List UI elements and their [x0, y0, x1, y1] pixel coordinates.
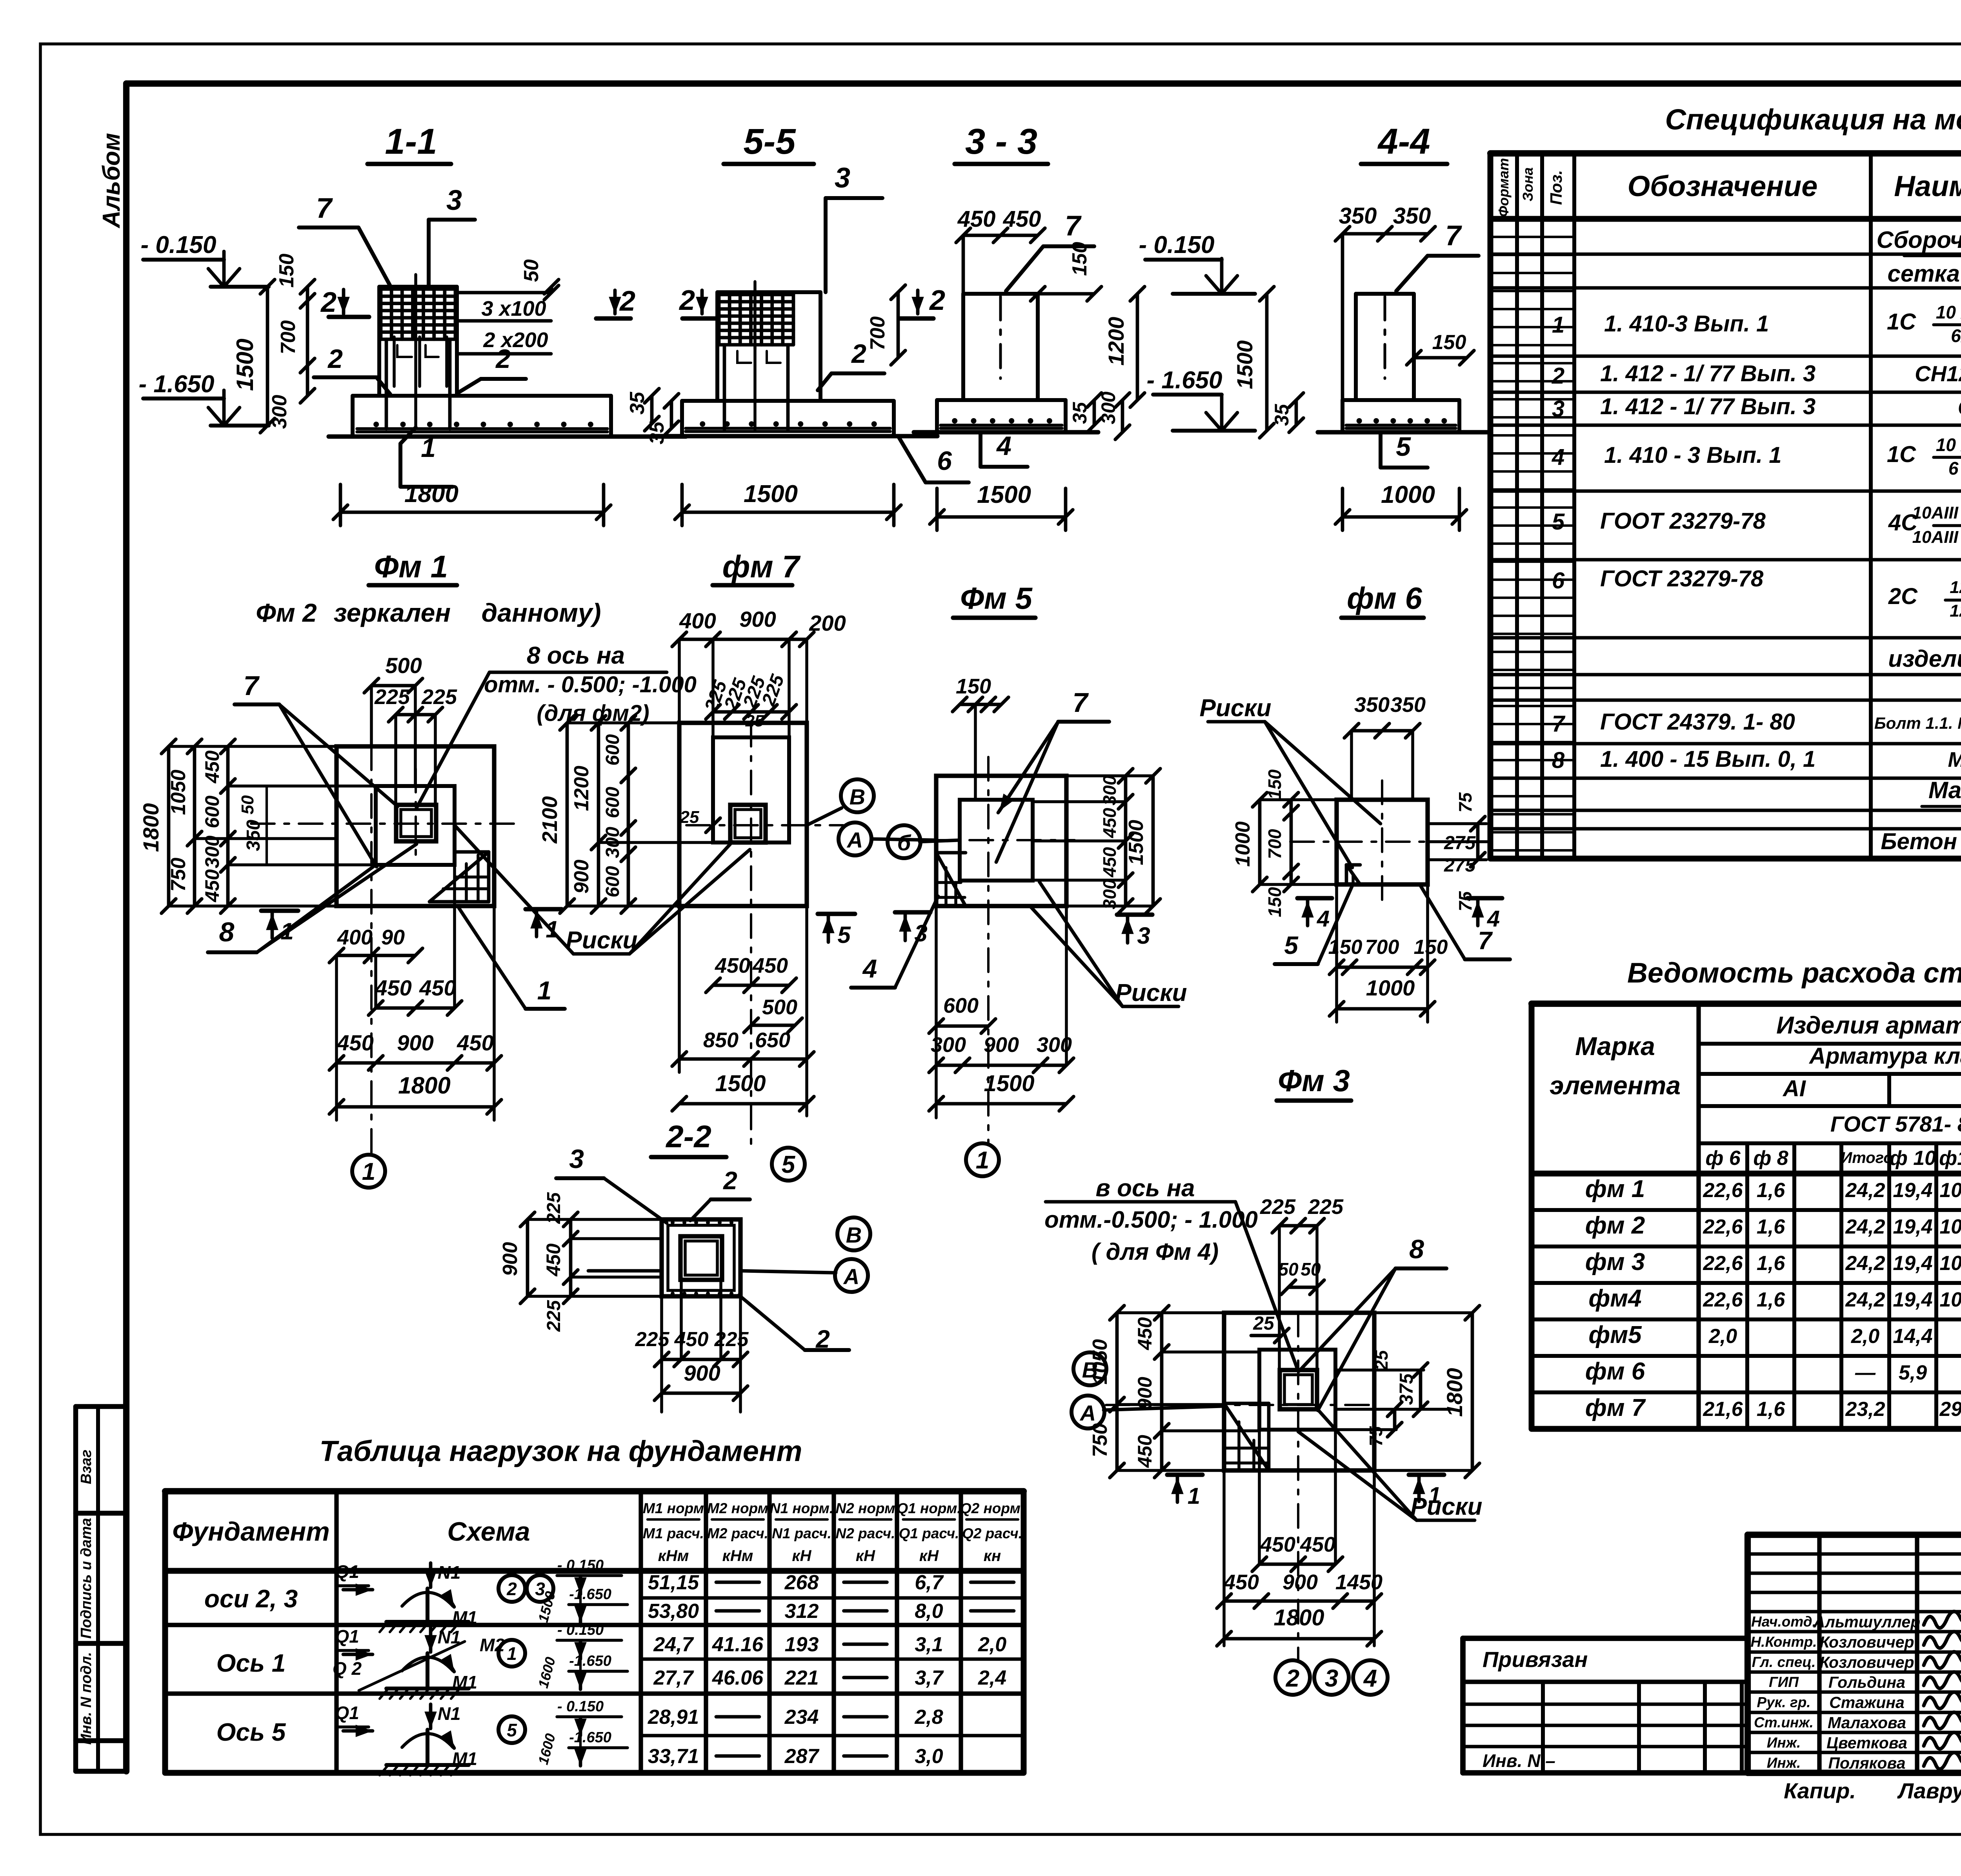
- svg-text:А: А: [846, 828, 863, 852]
- svg-text:ГОСТ 24379. 1- 80: ГОСТ 24379. 1- 80: [1600, 709, 1795, 735]
- svg-text:2,0: 2,0: [978, 1633, 1006, 1656]
- title block outline: [1748, 1535, 1961, 1773]
- ФМ3 cut mark 1 right: [1409, 1475, 1444, 1508]
- ФМ7 axis dashed lines: [686, 723, 843, 1147]
- ФМ3 pedestal: [1259, 1350, 1335, 1430]
- ФМ5 right dims 300 450 450 300: [1033, 769, 1153, 913]
- ФМ7 bottom dims 450 450: [706, 954, 797, 992]
- svg-text:225: 225: [421, 685, 457, 709]
- svg-text:8: 8: [1552, 748, 1565, 773]
- ФМ6 bottom dims 150 700 150: [1328, 884, 1448, 1022]
- ФМ6 right dims 75 275 275 75: [1428, 792, 1490, 912]
- svg-text:450: 450: [1223, 1570, 1259, 1594]
- svg-text:2: 2: [619, 286, 635, 317]
- ФМ3 plan outline: [1224, 1313, 1374, 1470]
- svg-text:350: 350: [1390, 693, 1426, 717]
- spec row embedded item: [1888, 646, 1961, 672]
- svg-text:3,7: 3,7: [915, 1667, 944, 1689]
- ФМ1 bottom dims 450 900 450: [329, 906, 502, 1070]
- ФМ6 plan outline: [1337, 800, 1428, 884]
- section 1-1 leader 1: [400, 428, 453, 487]
- svg-text:450: 450: [1099, 847, 1120, 877]
- svg-text:Фм 1: Фм 1: [374, 549, 448, 584]
- svg-text:- 0.150: - 0.150: [140, 231, 216, 258]
- svg-text:7: 7: [1065, 210, 1082, 242]
- spec row assembly units: [1877, 227, 1961, 287]
- svg-text:ГИП: ГИП: [1769, 1674, 1799, 1690]
- svg-text:данному): данному): [481, 598, 601, 627]
- svg-text:1200: 1200: [570, 766, 593, 811]
- svg-text:225: 225: [374, 685, 410, 709]
- svg-text:150: 150: [275, 254, 298, 288]
- svg-text:90: 90: [381, 926, 405, 949]
- spec row 4: [1552, 435, 1961, 479]
- svg-text:N1 норм.: N1 норм.: [770, 1500, 833, 1516]
- svg-text:изделие закладное: изделие закладное: [1888, 646, 1961, 672]
- svg-text:Ось 1: Ось 1: [216, 1649, 286, 1677]
- svg-text:150: 150: [1068, 242, 1091, 276]
- svg-text:8 ось на: 8 ось на: [527, 642, 625, 669]
- svg-text:в ось на: в ось на: [1096, 1175, 1195, 1202]
- svg-text:Фундамент: Фундамент: [172, 1517, 330, 1547]
- svg-text:2,0: 2,0: [1708, 1325, 1737, 1348]
- svg-text:N1: N1: [438, 1703, 461, 1724]
- section 5-5 leader 2 bottom: [818, 339, 884, 390]
- svg-text:225: 225: [758, 671, 788, 709]
- section 4-4 top dims 350 350: [1335, 203, 1435, 400]
- svg-text:268: 268: [784, 1571, 819, 1594]
- svg-text:1500: 1500: [1125, 820, 1148, 865]
- section 5-5 cut mark 2 right: [900, 285, 945, 318]
- svg-text:4: 4: [996, 431, 1011, 461]
- ФМ6 riski label: [1199, 695, 1381, 868]
- svg-text:—: —: [1855, 1361, 1876, 1384]
- ФМ1 pedestal: [376, 786, 455, 865]
- section 3-3 leader 4: [980, 431, 1028, 467]
- svg-text:25: 25: [745, 711, 764, 730]
- svg-text:50: 50: [1278, 1259, 1299, 1279]
- ФМ5 top dim 150: [953, 675, 1009, 800]
- svg-text:Риски: Риски: [566, 927, 637, 954]
- ФМ6 hatch mark: [1346, 865, 1360, 884]
- svg-text:500: 500: [762, 995, 797, 1019]
- svg-text:24,2: 24,2: [1845, 1288, 1885, 1311]
- svg-text:Q 2: Q 2: [333, 1658, 362, 1679]
- svg-text:Стажина: Стажина: [1829, 1694, 1905, 1712]
- svg-text:2: 2: [1552, 363, 1564, 389]
- svg-text:кНм: кНм: [722, 1547, 753, 1565]
- ФМ5 riski label right: [1031, 882, 1187, 1006]
- svg-text:5,9: 5,9: [1899, 1361, 1927, 1384]
- ФМ1 cut mark 1 left: [261, 911, 298, 944]
- svg-text:6: 6: [1552, 568, 1565, 593]
- ФМ1 top dim 500: [364, 653, 423, 786]
- svg-text:1. 412 - 1/ 77 Вып. 3: 1. 412 - 1/ 77 Вып. 3: [1600, 361, 1815, 386]
- svg-text:2: 2: [320, 287, 337, 318]
- section 4-4 dim 1000 bottom: [1335, 481, 1467, 530]
- section 5-5 dim 1500: [675, 480, 901, 526]
- svg-text:1. 412 - 1/ 77 Вып. 3: 1. 412 - 1/ 77 Вып. 3: [1600, 394, 1815, 419]
- plan title ФМ 7: [713, 549, 801, 585]
- svg-text:Спецификация на монолитны: Спецификация на монолитные фундаменты: [1665, 103, 1961, 136]
- section 4-4 dim 35 left: [1271, 393, 1303, 433]
- svg-text:1,6: 1,6: [1757, 1215, 1785, 1238]
- svg-text:кНм: кНм: [658, 1547, 689, 1565]
- svg-text:2: 2: [723, 1166, 737, 1195]
- svg-text:12АIII: 12АIII: [1950, 601, 1961, 620]
- svg-text:150: 150: [956, 675, 991, 698]
- svg-text:Сборочные единицы: Сборочные единицы: [1877, 227, 1961, 253]
- svg-text:1500: 1500: [232, 338, 258, 391]
- svg-text:Зона: Зона: [1520, 167, 1536, 202]
- svg-text:N2 норм: N2 норм: [835, 1500, 895, 1516]
- svg-text:фм 1: фм 1: [1585, 1175, 1645, 1203]
- spec row 1: [1552, 302, 1961, 346]
- svg-text:М2 норм: М2 норм: [707, 1500, 768, 1516]
- svg-text:225: 225: [1260, 1195, 1296, 1219]
- svg-text:Подпись и дата: Подпись и дата: [78, 1518, 95, 1639]
- svg-text:3,1: 3,1: [915, 1633, 943, 1656]
- svg-text:Обозначение: Обозначение: [1628, 170, 1818, 202]
- plan title ФМ 1: [369, 549, 457, 585]
- svg-text:ф 6: ф 6: [1705, 1147, 1741, 1170]
- svg-text:600: 600: [201, 795, 223, 828]
- svg-text:450: 450: [957, 206, 996, 232]
- svg-text:М1: М1: [452, 1607, 477, 1628]
- svg-text:фм 6: фм 6: [1347, 581, 1422, 615]
- svg-text:фм 3: фм 3: [1585, 1248, 1645, 1276]
- svg-text:500: 500: [385, 653, 422, 678]
- ФМ3 axis circles 2 3 4: [1275, 1660, 1388, 1695]
- spec table grid: [1490, 153, 1961, 951]
- svg-text:33,71: 33,71: [648, 1745, 699, 1768]
- svg-text:фм4: фм4: [1588, 1285, 1641, 1312]
- svg-text:19,4: 19,4: [1893, 1288, 1932, 1311]
- svg-text:150: 150: [1264, 887, 1285, 917]
- vedomost table heading: [1627, 957, 1961, 989]
- ФМ3 bottom dims 450 900 1450: [1217, 1470, 1383, 1646]
- svg-text:ГОСТ 23279-78: ГОСТ 23279-78: [1600, 566, 1764, 591]
- spec row 2: [1552, 361, 1961, 389]
- svg-text:Инв. N –: Инв. N –: [1483, 1750, 1555, 1771]
- svg-text:1000: 1000: [1381, 481, 1435, 508]
- svg-text:Инв. N подл.: Инв. N подл.: [78, 1652, 95, 1745]
- svg-text:450: 450: [1134, 1435, 1156, 1468]
- svg-text:19,4: 19,4: [1893, 1252, 1932, 1275]
- ФМ6 left dim 1000: [1232, 793, 1337, 892]
- svg-text:М1: М1: [452, 1672, 477, 1692]
- svg-text:1: 1: [976, 1147, 989, 1174]
- ФМ3 anchor plate: [1280, 1370, 1317, 1409]
- section 1-1 leader 3: [429, 185, 475, 287]
- svg-text:7: 7: [244, 670, 260, 701]
- vedomost data rows: [1585, 1175, 1961, 1421]
- svg-text:5: 5: [1284, 931, 1299, 959]
- section 2-2 leader 3: [556, 1144, 667, 1223]
- loads table headers: [172, 1500, 1024, 1565]
- svg-text:5-5: 5-5: [744, 122, 797, 162]
- svg-text:400: 400: [337, 926, 373, 949]
- svg-text:1. 400 - 15 Вып. 0, 1: 1. 400 - 15 Вып. 0, 1: [1600, 746, 1815, 772]
- svg-text:450: 450: [674, 1328, 709, 1351]
- svg-text:600: 600: [943, 994, 979, 1017]
- level mark -0.150 center: [1139, 231, 1255, 294]
- svg-text:Н.Контр.: Н.Контр.: [1750, 1634, 1817, 1650]
- svg-text:Таблица нагрузок на фунда: Таблица нагрузок на фундамент: [320, 1435, 802, 1467]
- svg-text:Альбом: Альбом: [98, 133, 125, 229]
- svg-text:М2: М2: [480, 1635, 505, 1655]
- svg-text:ГООТ 23279-78: ГООТ 23279-78: [1600, 508, 1766, 534]
- svg-text:Капир.: Капир.: [1784, 1778, 1856, 1803]
- svg-text:Взаг: Взаг: [78, 1450, 95, 1484]
- svg-text:N1: N1: [438, 1562, 461, 1583]
- axis circles В А б between plans: [807, 779, 960, 858]
- ФМ1 note 8 axis at elevation: [417, 642, 697, 808]
- svg-text:СА - 6АI: СА - 6АI: [1958, 395, 1961, 420]
- svg-text:700: 700: [866, 317, 889, 351]
- section 1-1 dim 35 right: [626, 389, 659, 431]
- ФМ1 left dims 450 600 300 450: [201, 739, 376, 913]
- svg-text:10 А III: 10 А III: [1936, 435, 1961, 455]
- ФМ7 top dims 400 900 200: [672, 607, 846, 737]
- svg-text:7: 7: [1445, 220, 1462, 251]
- svg-text:27,7: 27,7: [653, 1667, 694, 1689]
- svg-text:Гл. спец.: Гл. спец.: [1752, 1654, 1816, 1670]
- section 1-1 level mark -0.150: [140, 231, 269, 287]
- ФМ5 bottom dims 300 900 300: [929, 906, 1074, 1118]
- svg-text:10АIII - 200 (100): 10АIII - 200 (100): [1912, 528, 1961, 547]
- svg-text:150: 150: [1264, 769, 1285, 799]
- svg-text:150: 150: [1414, 936, 1448, 959]
- svg-text:ф 10: ф 10: [1890, 1147, 1936, 1170]
- svg-text:Арматура класса: Арматура класса: [1808, 1043, 1961, 1069]
- svg-text:10,4: 10,4: [1939, 1215, 1961, 1238]
- svg-text:350: 350: [1393, 203, 1431, 229]
- loads scheme axis 5: [335, 1698, 628, 1775]
- svg-text:Изделия арматурные: Изделия арматурные: [1776, 1012, 1961, 1039]
- svg-text:2: 2: [495, 344, 511, 374]
- svg-text:- 0.150: - 0.150: [557, 1698, 604, 1715]
- ФМ1 hatch triangle: [429, 852, 489, 902]
- svg-text:700: 700: [1264, 829, 1285, 859]
- svg-text:2100: 2100: [538, 796, 562, 844]
- svg-text:отм. - 0.500; -1.000: отм. - 0.500; -1.000: [484, 672, 697, 697]
- svg-text:5: 5: [782, 1151, 796, 1178]
- svg-text:1,6: 1,6: [1757, 1179, 1785, 1202]
- svg-text:М2 расч.: М2 расч.: [707, 1525, 768, 1541]
- svg-text:750: 750: [167, 858, 190, 892]
- svg-text:кН: кН: [792, 1547, 811, 1565]
- ФМ6 cut mark 4 left: [1297, 898, 1332, 932]
- svg-text:23,2: 23,2: [1845, 1398, 1885, 1421]
- svg-text:225: 225: [714, 1328, 749, 1351]
- level mark -1.650 center: [1146, 367, 1255, 431]
- svg-text:Нач.отд.: Нач.отд.: [1751, 1614, 1816, 1630]
- svg-text:N1 расч.: N1 расч.: [772, 1525, 831, 1541]
- svg-text:Фм 2: Фм 2: [256, 598, 317, 627]
- ФМ7 axis circle 5: [772, 1148, 805, 1181]
- spec table headers: [1495, 158, 1961, 217]
- svg-text:Наименование: Наименование: [1894, 170, 1961, 202]
- svg-text:450: 450: [457, 1030, 493, 1055]
- ФМ1 top dims 225 225: [374, 685, 457, 805]
- svg-text:- 0.150: - 0.150: [557, 1622, 604, 1638]
- svg-text:Фм 5: Фм 5: [960, 581, 1033, 615]
- section 2-2 bottom dims 225 450 225: [635, 1280, 749, 1412]
- section 2-2 leader 2 top: [690, 1166, 750, 1221]
- ФМ5 pedestal: [960, 800, 1033, 881]
- section 2-2 bottom dim 900: [655, 1361, 748, 1400]
- svg-text:3 х100: 3 х100: [481, 297, 546, 320]
- svg-text:кн: кн: [984, 1547, 1001, 1565]
- ФМ3 left dims 1050 750: [1089, 1306, 1224, 1478]
- svg-text:1,6: 1,6: [1757, 1252, 1785, 1275]
- svg-text:зеркален: зеркален: [334, 598, 451, 627]
- svg-text:600: 600: [602, 866, 623, 897]
- svg-text:193: 193: [785, 1633, 819, 1656]
- svg-text:3 - 3: 3 - 3: [965, 122, 1037, 162]
- section 4-4 title: [1361, 122, 1447, 164]
- svg-text:450: 450: [1099, 808, 1120, 838]
- svg-text:25: 25: [1371, 1350, 1392, 1371]
- svg-text:600: 600: [602, 734, 623, 766]
- svg-text:элемента: элемента: [1550, 1071, 1681, 1100]
- ФМ5 cut mark 3 right: [1117, 915, 1152, 949]
- section 5-5 leader 3: [826, 162, 882, 292]
- section 1-1 dims 150 700 300: [268, 254, 315, 429]
- svg-text:24,2: 24,2: [1845, 1179, 1885, 1202]
- svg-text:отм.-0.500; - 1.000: отм.-0.500; - 1.000: [1044, 1206, 1258, 1233]
- svg-text:-1.650: -1.650: [569, 1729, 611, 1746]
- svg-text:4-4: 4-4: [1377, 122, 1430, 162]
- svg-text:1-1: 1-1: [385, 122, 437, 162]
- svg-text:Малахова: Малахова: [1828, 1714, 1906, 1732]
- privyazan table: [1463, 1638, 1748, 1773]
- svg-text:900: 900: [1134, 1377, 1156, 1410]
- ФМ1 small dims 50 350: [238, 786, 267, 865]
- svg-text:650: 650: [755, 1028, 790, 1052]
- section 5-5 column rebars: [724, 345, 788, 429]
- svg-text:450: 450: [375, 975, 411, 1000]
- svg-text:1: 1: [1188, 1483, 1200, 1509]
- ФМ1 bottom dim 1800: [329, 1063, 502, 1120]
- svg-text:Инж.: Инж.: [1767, 1755, 1801, 1771]
- svg-text:4: 4: [1317, 906, 1330, 932]
- svg-text:3: 3: [1325, 1665, 1338, 1692]
- loads table grid: [165, 1491, 1024, 1773]
- svg-text:50: 50: [238, 795, 257, 814]
- ФМ7 bottom dim 1500: [672, 1071, 814, 1111]
- note ФМ 2 mirrored: [256, 598, 601, 627]
- svg-text:фм 7: фм 7: [1585, 1394, 1646, 1421]
- svg-text:3: 3: [835, 162, 850, 194]
- svg-text:450: 450: [419, 975, 456, 1000]
- svg-text:АI: АI: [1782, 1076, 1806, 1101]
- svg-text:53,80: 53,80: [648, 1600, 699, 1623]
- svg-text:300: 300: [268, 395, 291, 429]
- loads table values: [648, 1571, 1014, 1768]
- svg-text:1500: 1500: [977, 481, 1031, 508]
- section 1-1 spacing labels 3x100 2x200: [457, 293, 551, 354]
- svg-text:фм 7: фм 7: [722, 549, 801, 584]
- section 2-2 axis circles В А: [588, 1217, 870, 1292]
- ФМ3 bottom dim 1800: [1217, 1605, 1382, 1646]
- svg-text:14,4: 14,4: [1893, 1325, 1932, 1348]
- loads table heading: [320, 1435, 802, 1467]
- ФМ7 anchor plate: [730, 805, 766, 842]
- svg-text:1,6: 1,6: [1757, 1398, 1785, 1421]
- section 3-3 dim 1200: [1104, 287, 1144, 408]
- svg-text:10,4: 10,4: [1939, 1179, 1961, 1202]
- svg-text:1600: 1600: [535, 1732, 558, 1766]
- svg-text:- 1.650: - 1.650: [138, 371, 214, 398]
- section 1-1 dim 50: [520, 259, 558, 300]
- section 3-3 dim 150: [1031, 242, 1102, 301]
- svg-text:5: 5: [507, 1720, 517, 1740]
- svg-text:N2 расч.: N2 расч.: [836, 1525, 895, 1541]
- section 1-1 dim 1500 vertical: [232, 280, 275, 433]
- ФМ3 axis circles В А: [1071, 1352, 1224, 1428]
- svg-text:4: 4: [862, 954, 877, 983]
- svg-text:Риски: Риски: [1410, 1493, 1482, 1520]
- svg-text:5: 5: [837, 922, 851, 948]
- ФМ6 top dims 350 350: [1344, 693, 1426, 800]
- svg-text:1С: 1С: [1887, 442, 1916, 467]
- ФМ3 dim 25: [1251, 1313, 1289, 1343]
- svg-text:Гольдина: Гольдина: [1828, 1673, 1905, 1691]
- ФМ1 leader 7: [235, 670, 398, 867]
- svg-text:Марка: Марка: [1575, 1032, 1655, 1061]
- svg-text:300: 300: [201, 835, 223, 868]
- ФМ5 bottom dim 1500: [929, 1071, 1074, 1111]
- svg-text:6АI: 6АI: [1951, 326, 1961, 346]
- svg-text:Цветкова: Цветкова: [1826, 1734, 1907, 1752]
- svg-text:1: 1: [280, 918, 293, 944]
- ФМ5 plan title: [953, 581, 1035, 618]
- svg-text:450: 450: [1260, 1533, 1295, 1556]
- svg-text:10,4: 10,4: [1939, 1252, 1961, 1275]
- svg-text:-1.650: -1.650: [569, 1586, 611, 1603]
- svg-text:900: 900: [984, 1033, 1019, 1057]
- svg-text:( для Фм 4): ( для Фм 4): [1091, 1239, 1219, 1265]
- svg-text:ф 8: ф 8: [1753, 1147, 1788, 1170]
- section 1-1 cut mark 2 left: [320, 287, 369, 318]
- svg-text:1800: 1800: [138, 803, 163, 852]
- ФМ3 axis dashed lines: [1106, 1313, 1374, 1659]
- svg-text:8: 8: [219, 917, 235, 947]
- svg-text:350: 350: [243, 820, 264, 851]
- svg-text:1000: 1000: [1232, 821, 1254, 867]
- ФМ3 riski label: [1298, 1410, 1483, 1520]
- ФМ5 axis dashed lines: [922, 757, 1075, 1145]
- vertical margin label Альбом: [98, 133, 125, 229]
- section 5-5 dim 35 left: [646, 394, 679, 444]
- svg-text:225: 225: [544, 1300, 564, 1332]
- svg-text:4: 4: [1363, 1665, 1377, 1692]
- svg-text:3: 3: [1552, 396, 1564, 422]
- svg-text:Полякова: Полякова: [1828, 1754, 1905, 1772]
- ФМ3 left dims 450 900 450: [1134, 1306, 1259, 1478]
- svg-text:7: 7: [1552, 711, 1566, 737]
- section 5-5 dim 700 right: [866, 285, 905, 365]
- svg-text:Риски: Риски: [1199, 695, 1271, 722]
- svg-text:Q1 норм.: Q1 норм.: [897, 1500, 961, 1516]
- svg-text:Альтшуллер: Альтшуллер: [1813, 1613, 1920, 1631]
- svg-text:1050: 1050: [1089, 1339, 1111, 1385]
- svg-text:ф12: ф12: [1939, 1147, 1961, 1170]
- svg-text:46.06: 46.06: [712, 1667, 764, 1689]
- svg-text:221: 221: [784, 1667, 819, 1689]
